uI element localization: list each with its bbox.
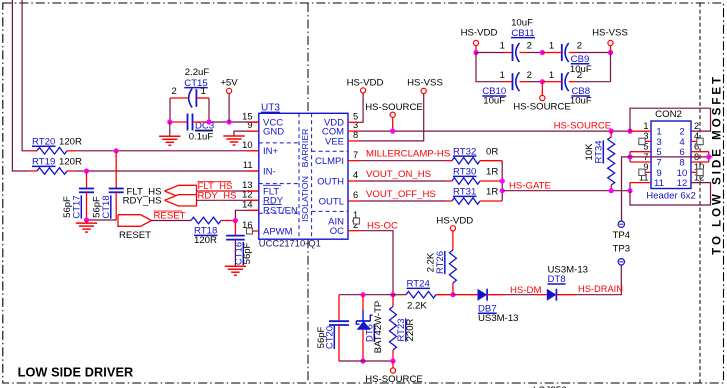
NC marker AIN pin 1 — [352, 220, 358, 222]
junction DC3 right — [206, 119, 211, 124]
wire HS-SOURCE loop over CON2 — [630, 108, 711, 131]
svg-text:ISOLATION: ISOLATION — [300, 176, 310, 222]
svg-text:HS-VDD: HS-VDD — [461, 28, 498, 39]
svg-text:10: 10 — [242, 140, 252, 150]
wire VCC net — [170, 121, 188, 123]
svg-text:US3M-13: US3M-13 — [478, 313, 519, 324]
connector CON2 body — [651, 121, 691, 189]
wire VEE to HS-VSS — [348, 140, 359, 142]
wire COM / HS-SOURCE net to CON2 — [348, 130, 359, 132]
junction HS-GATE tap — [500, 188, 505, 193]
isolation boundary dash-dot line upper — [307, 3, 309, 113]
CON2 pin 3 NC — [645, 140, 651, 142]
wire right column down — [610, 53, 612, 82]
svg-text:OUTH: OUTH — [317, 176, 344, 187]
svg-text:120R: 120R — [194, 235, 217, 246]
resistor RT18 120R — [191, 217, 221, 224]
junction IN+ / CT18 — [114, 148, 119, 153]
svg-text:0R: 0R — [486, 146, 498, 157]
wire CT15 pin1 down — [208, 98, 210, 122]
wire OUTL net — [348, 200, 359, 202]
capacitor DC3 0.1uF — [187, 114, 189, 131]
wire HS-DRAIN net — [575, 265, 621, 295]
resistor RT24 2.2K — [393, 294, 406, 296]
svg-text:Header 6x2: Header 6x2 — [646, 190, 696, 201]
svg-text:7: 7 — [353, 150, 358, 160]
junction HS-VDD node — [473, 50, 478, 55]
wire FLT net — [196, 190, 259, 192]
svg-text:120R: 120R — [59, 136, 82, 147]
wire IN+ net to IC — [75, 150, 259, 152]
power port HS-SOURCE (bottom) — [392, 361, 394, 368]
svg-text:1R: 1R — [486, 187, 498, 198]
pin stub RDY — [247, 199, 259, 201]
svg-text:120R: 120R — [59, 157, 82, 168]
svg-text:HS-VDD: HS-VDD — [436, 216, 473, 227]
svg-text:LOW SIDE DRIVER: LOW SIDE DRIVER — [18, 366, 134, 380]
svg-text:IN-: IN- — [263, 166, 276, 177]
resistor RT23 220R — [392, 295, 394, 307]
svg-text:HS-OC: HS-OC — [367, 220, 398, 231]
CON2 pin 4 NC — [691, 140, 697, 142]
svg-text:HS-SOURCE: HS-SOURCE — [513, 102, 571, 113]
resistor RT20 120R — [28, 150, 37, 152]
resistor RT30 1R — [446, 180, 452, 182]
svg-text:MILLERCLAMP-HS: MILLERCLAMP-HS — [366, 148, 450, 159]
wire IN- vertical bus from top — [12, 0, 28, 171]
junction RST / CT16 — [233, 218, 238, 223]
dashed divider — [259, 183, 299, 185]
svg-text:HS-SOURCE: HS-SOURCE — [554, 120, 612, 131]
svg-text:2.2uF: 2.2uF — [185, 67, 210, 78]
dashed divider — [259, 142, 299, 144]
diode DB7 US3M-13 — [453, 294, 459, 296]
op-amp U1 gate driver UT3 UCC21710-Q1 body — [259, 113, 348, 239]
ground below CT16 — [225, 265, 246, 267]
wire TP4 branch — [622, 157, 631, 221]
svg-text:10uF: 10uF — [511, 17, 533, 28]
junction bottom row middle / HS-SOURCE — [540, 79, 545, 84]
junction RT23 bottom — [390, 358, 395, 363]
junction gate pins left — [627, 154, 632, 159]
junction OC node — [390, 292, 395, 297]
wire RESET to RT18 — [151, 220, 192, 222]
svg-text:RST/EN: RST/EN — [263, 206, 298, 217]
junction RT30 output — [500, 178, 505, 183]
svg-text:1R: 1R — [486, 167, 498, 178]
NC marker APWM pin 16 — [252, 230, 259, 232]
svg-text:RESET: RESET — [119, 230, 151, 241]
resistor RT32 0R — [446, 160, 452, 162]
svg-text:VOUT_OFF_HS: VOUT_OFF_HS — [366, 189, 436, 200]
svg-text:APWM: APWM — [263, 226, 293, 237]
pin stub IN+ — [247, 150, 259, 152]
CON2 pin 1 stub — [630, 130, 651, 132]
svg-text:RDY_HS: RDY_HS — [198, 191, 237, 202]
svg-text:OUTL: OUTL — [319, 196, 344, 207]
junction DT6 bottom — [360, 358, 365, 363]
port RDY_HS (left arrow) — [165, 195, 197, 206]
pin stub VCC — [247, 121, 259, 123]
overline FLT pin name — [263, 184, 281, 186]
svg-text:1: 1 — [549, 70, 554, 81]
ground below CT15/DC3 node — [169, 122, 171, 136]
pin stub GND — [247, 130, 259, 132]
wire RDY net — [196, 199, 259, 201]
wire HS-GATE net — [502, 190, 630, 192]
svg-text:VEE: VEE — [325, 136, 344, 147]
svg-text:TP3: TP3 — [612, 244, 630, 255]
svg-text:HS-VSS: HS-VSS — [407, 77, 443, 88]
wire CT18 to CT17 ground run — [87, 219, 117, 221]
wire RST/EN net — [235, 210, 258, 220]
resistor RT19 120R — [28, 170, 37, 172]
capacitor CT17 56pF — [86, 171, 88, 189]
junction +5V — [227, 119, 232, 124]
resistor RT26 2.2K — [452, 231, 454, 250]
svg-text:OC: OC — [330, 226, 344, 237]
svg-text:2: 2 — [694, 121, 699, 131]
svg-text:+5V: +5V — [220, 78, 238, 89]
wire CLMPI net — [348, 160, 359, 162]
resistor RT31 1R — [446, 200, 452, 202]
junction RT34 top — [609, 129, 614, 134]
svg-text:2: 2 — [172, 86, 177, 97]
junction HS-VSS node — [608, 50, 613, 55]
junction CON2 pin1 node — [627, 129, 632, 134]
svg-text:2: 2 — [577, 70, 582, 81]
pin stub IN- — [247, 170, 259, 172]
svg-text:HS-VSS: HS-VSS — [592, 28, 628, 39]
wire output merge vertical — [501, 161, 503, 201]
svg-text:1: 1 — [549, 41, 554, 52]
right partition dashed line — [699, 3, 701, 383]
wire CT15 pin2 down — [169, 98, 171, 122]
junction HS-SOURCE stub — [390, 129, 395, 134]
CON2 pins 6/8 tie — [691, 151, 709, 153]
pin stub RST/EN — [247, 209, 259, 211]
wire left column down — [476, 53, 504, 82]
svg-text:TP4: TP4 — [612, 230, 630, 241]
svg-text:2.2K: 2.2K — [407, 301, 427, 312]
capacitor CT16 56pF — [234, 221, 236, 236]
capacitor CT18 56pF — [115, 151, 117, 189]
wire IN- net to IC — [75, 170, 259, 172]
junction gate pins right — [706, 154, 711, 159]
ground below CT17/CT18 — [86, 220, 88, 223]
junction DT6 top — [360, 292, 365, 297]
junction CT17 ground node — [84, 217, 89, 222]
svg-text:2: 2 — [527, 70, 532, 81]
svg-text:1: 1 — [500, 70, 505, 81]
svg-text:1: 1 — [201, 86, 206, 97]
svg-text:CLMPI: CLMPI — [315, 156, 344, 167]
svg-text:2: 2 — [527, 41, 532, 52]
svg-text:GND: GND — [263, 127, 284, 138]
pin stub FLT — [247, 190, 259, 192]
svg-text:UCC21710-Q1: UCC21710-Q1 — [259, 238, 321, 249]
junction HS-GATE / CON2 — [627, 188, 632, 193]
wire HS-DM net — [505, 294, 535, 296]
CON2 pin 10 NC — [691, 171, 697, 173]
svg-text:12: 12 — [677, 178, 688, 189]
capacitor CT20 56pF — [338, 295, 340, 322]
overline RST pin name — [263, 204, 282, 206]
junction RT34 bottom — [609, 188, 614, 193]
isolation barrier dashed dividers inside UT3 — [298, 113, 300, 239]
CON2 pin 9 NC — [645, 171, 651, 173]
svg-text:RDY_HS: RDY_HS — [123, 196, 162, 207]
svg-text:HS-GATE: HS-GATE — [509, 180, 551, 191]
svg-text:1: 1 — [500, 41, 505, 52]
svg-text:HS-SOURCE: HS-SOURCE — [365, 374, 423, 385]
svg-text:0.1uF: 0.1uF — [189, 132, 214, 143]
svg-text:6: 6 — [353, 190, 358, 200]
svg-text:56pF: 56pF — [242, 242, 253, 264]
dashed divider — [312, 150, 348, 152]
wire IN+ vertical bus from top — [22, 0, 28, 151]
junction top row middle — [540, 50, 545, 55]
svg-text:10uF: 10uF — [570, 95, 592, 106]
svg-text:BARRIER: BARRIER — [300, 129, 310, 168]
power port HS-SOURCE (cap bank) — [541, 82, 543, 96]
wire VDD to HS-VDD — [348, 121, 359, 123]
wire OUTH net — [348, 180, 359, 182]
wire bottom left branch — [339, 294, 393, 296]
wire HS-GATE loop under CON2 to pin 12 — [630, 183, 711, 205]
label TO LOW SIDE MOSFET — [712, 74, 724, 255]
CON2 pin 11 to HS-GATE — [630, 182, 651, 184]
diode DT6 BAT42W-TP — [362, 295, 364, 310]
resistor RT34 10K — [610, 131, 612, 137]
junction DC3 left — [167, 119, 172, 124]
wire GND pin to ground — [234, 131, 259, 136]
wire gate net across CON2 — [630, 156, 709, 158]
dashed divider — [259, 212, 299, 214]
ground at IC GND pin — [223, 135, 244, 137]
svg-text:1: 1 — [643, 121, 648, 131]
wire bottom loop — [339, 360, 393, 362]
svg-text:11: 11 — [243, 160, 253, 170]
test point TP4 — [618, 221, 624, 227]
svg-text:IN+: IN+ — [263, 146, 279, 157]
svg-text:BAT42W-TP: BAT42W-TP — [373, 301, 384, 353]
diode DT8 US3M-13 — [535, 294, 547, 296]
dashed divider — [312, 210, 348, 212]
svg-text:TO LOW SIDE MOSFET: TO LOW SIDE MOSFET — [712, 74, 724, 255]
wire OC pin to bottom node — [348, 230, 359, 232]
svg-text:HS-DRAIN: HS-DRAIN — [578, 284, 623, 294]
svg-text:CON2: CON2 — [655, 109, 682, 120]
svg-text:10uF: 10uF — [483, 95, 505, 106]
svg-text:HS-SOURCE: HS-SOURCE — [365, 102, 423, 113]
svg-text:4: 4 — [353, 170, 358, 180]
svg-text:HS-VDD: HS-VDD — [347, 77, 384, 88]
svg-text:11: 11 — [654, 178, 664, 189]
CON2 pins 5/7 tie — [630, 151, 651, 153]
svg-text:220R: 220R — [405, 319, 416, 342]
junction RT26 bottom — [450, 292, 455, 297]
svg-text:2: 2 — [577, 41, 582, 52]
port RESET (right arrow) — [118, 215, 152, 227]
isolation boundary dash-dot line lower — [307, 239, 309, 383]
svg-text:VOUT_ON_HS: VOUT_ON_HS — [366, 169, 431, 180]
port FLT_HS (left arrow) — [165, 185, 197, 196]
junction IN- / CT17 — [84, 168, 89, 173]
